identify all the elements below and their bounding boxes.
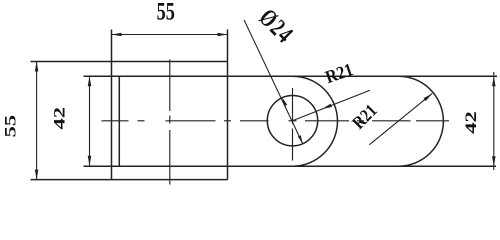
dim line top 55 xyxy=(112,34,228,36)
block bottom edge with extension to left 55 dim xyxy=(31,179,228,181)
svg-text:55: 55 xyxy=(1,115,19,138)
block top edge with extension to left 55 dim xyxy=(31,61,228,63)
arrow left42 top xyxy=(88,76,92,86)
leader R21 upper xyxy=(293,90,370,120)
boss arc R21 around hole (right semicircle) xyxy=(293,76,338,166)
vertical centerline of hole (dash-dot) xyxy=(292,88,294,124)
arrow dia24 upper (tip on hole circle, pointing up-left) xyxy=(282,97,287,106)
inner vertical step line in block xyxy=(118,76,120,166)
arrowheads xyxy=(35,33,496,180)
arrow right42 bottom xyxy=(492,156,496,166)
dim line right 42 xyxy=(493,72,495,170)
arrow dia24 lower (tip on hole circle, pointing down-right) xyxy=(298,135,303,144)
arrow top55 left xyxy=(112,33,122,37)
arrow top55 right xyxy=(218,33,228,37)
arrow R21 upper (tip on boss arc, pointing up-right) xyxy=(322,104,332,109)
block outline left edge xyxy=(111,30,113,180)
arrow left55 bottom xyxy=(35,170,39,180)
arrow left55 top xyxy=(35,62,39,72)
svg-text:42: 42 xyxy=(462,111,480,134)
strip top edge (42 high tongue) with extensions both sides xyxy=(84,75,498,77)
svg-text:55: 55 xyxy=(157,0,175,25)
hole circle dia 24 xyxy=(267,96,317,146)
arrow R21 lower (tip on right arc, pointing up-right) xyxy=(424,93,433,101)
svg-text:42: 42 xyxy=(51,107,69,130)
strip bottom edge with extensions both sides xyxy=(84,165,497,167)
arrow right42 top xyxy=(492,76,496,86)
vertical centerline in block (dash-dot) xyxy=(169,60,171,112)
leader R21 lower xyxy=(369,93,432,144)
arrow left42 bottom xyxy=(88,156,92,166)
block outline right edge xyxy=(227,30,229,180)
right rounded end arc R21 xyxy=(398,76,443,166)
dim line left 42 xyxy=(89,76,91,166)
dim line left 55 xyxy=(36,62,38,181)
horizontal centerline (dash-dot) xyxy=(102,120,129,122)
leader dia24 xyxy=(244,20,303,144)
